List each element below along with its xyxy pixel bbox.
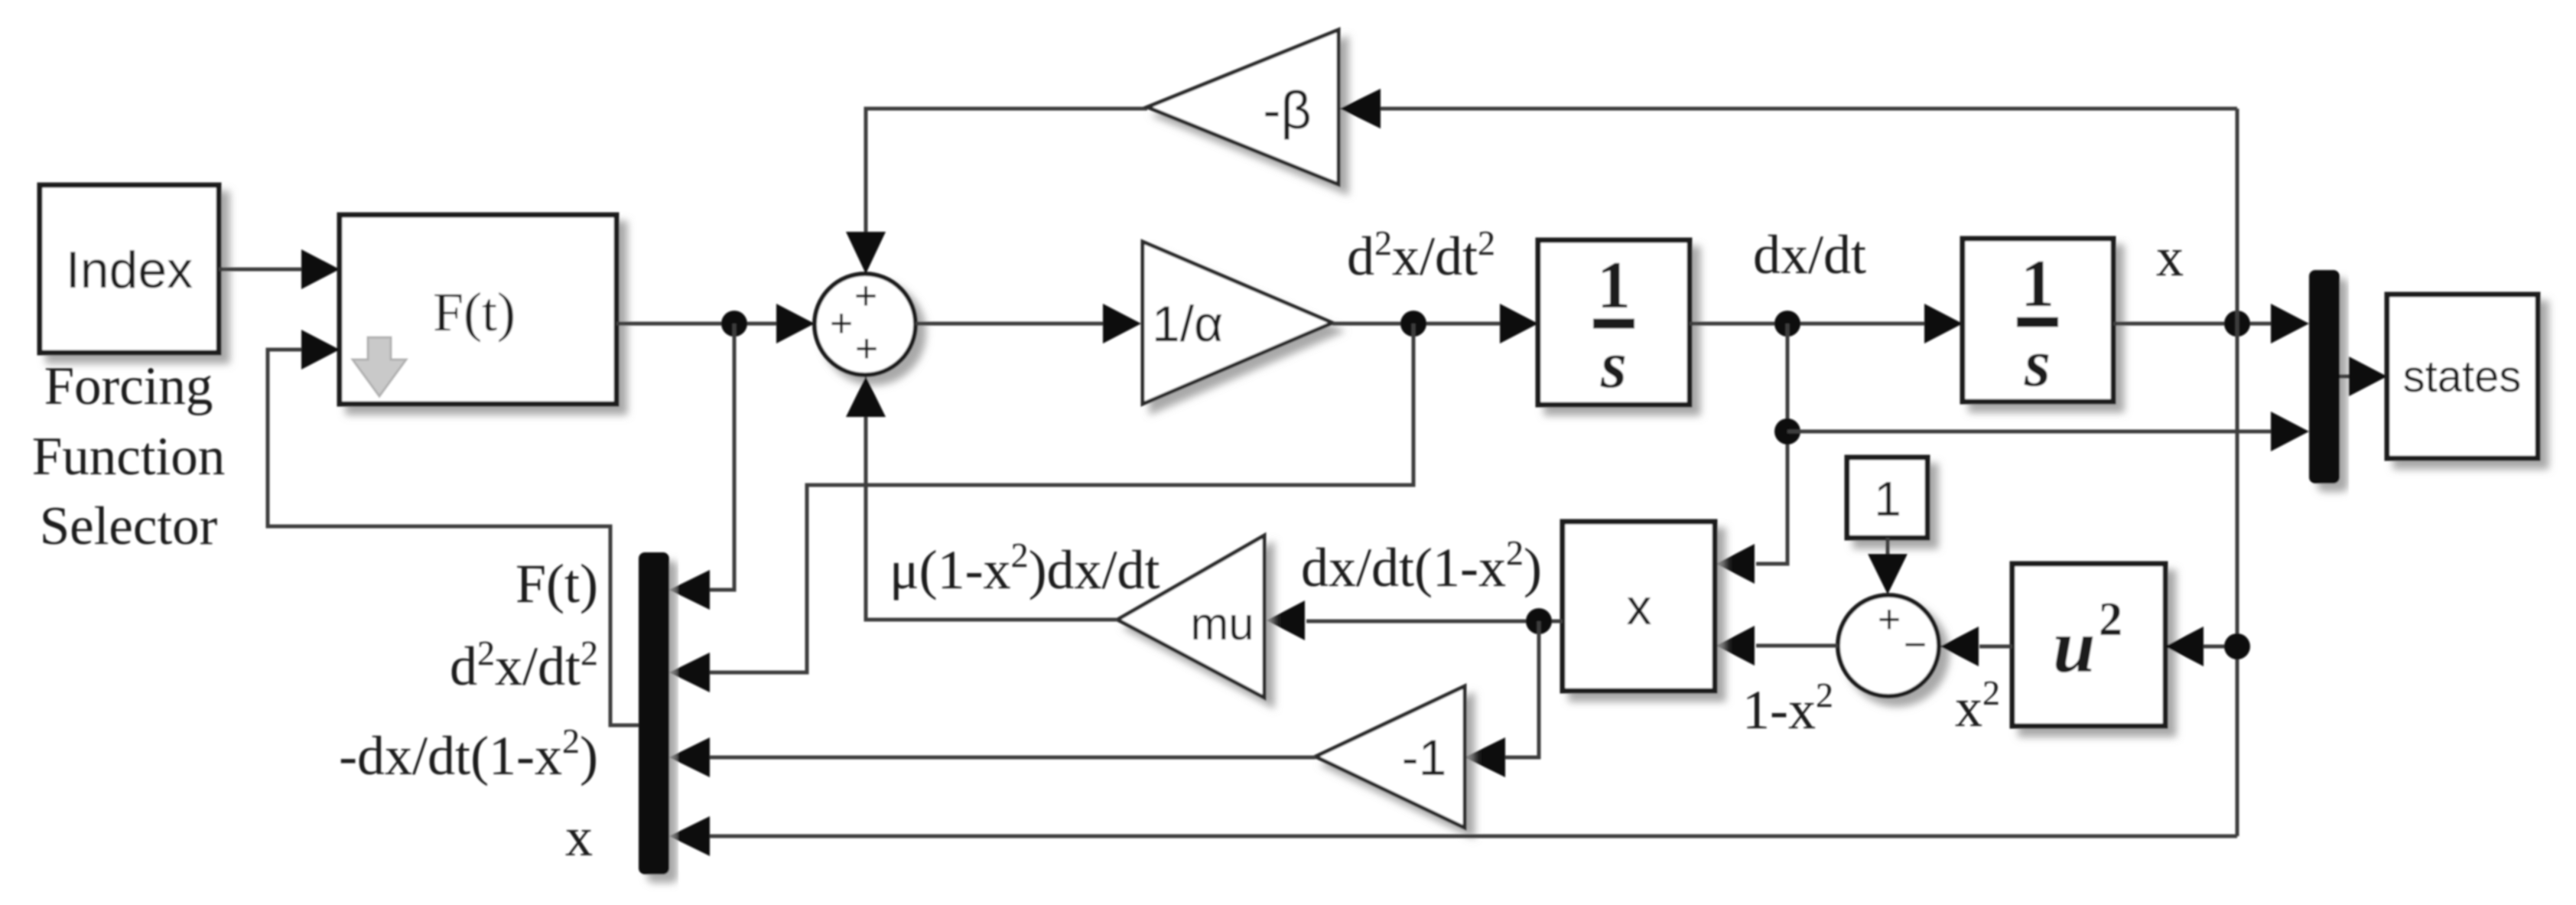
wire integrator 2 output to right mux input 1 [2113,304,2309,343]
svg-text:x: x [565,806,593,868]
wire arrow into product input 1 [1716,544,1755,584]
wire product output to gain mu [1267,601,1563,640]
block constant 1 [1847,457,1927,538]
svg-text:1: 1 [1874,471,1901,526]
wire integrator 1 to integrator 2 [1690,304,1963,343]
sum S2 [1838,595,1939,696]
node F(t) output junction [721,311,747,337]
wire sum S1 to gain 1/alpha [916,304,1141,343]
svg-text:+: + [855,327,878,371]
svg-text:s: s [2024,327,2051,401]
svg-text:u: u [2053,604,2096,689]
wire F(t) junction down to left mux input 1 [669,324,734,610]
node x output junction [2224,311,2250,337]
wire x feedback vertical [2236,109,2239,836]
svg-text:Forcing: Forcing [44,356,213,416]
svg-text:+: + [830,301,853,346]
svg-text:Function: Function [32,427,225,487]
wire right mux output to states [2340,356,2387,396]
wire product branch down to gain -1 [1465,621,1539,777]
block states [2387,295,2538,458]
subsystem F(t) [340,215,616,404]
gain 1/alpha [1143,242,1332,404]
mux right [2309,270,2340,483]
wire dx/dt branch down [1756,324,1787,564]
svg-text:1/α: 1/α [1152,295,1223,352]
svg-text:Selector: Selector [40,496,218,556]
wire u2 output to sum S2 [1940,627,2012,666]
svg-text:−: − [1904,623,1927,667]
node product output junction [1526,608,1552,634]
wire constant 1 down to sum S2 [1868,538,1908,594]
wire x feedback into -beta input [1340,89,2237,129]
wire F(t) output to sum S1 [616,304,815,343]
node dx/dt lower junction [1774,418,1800,444]
block Index [40,185,219,353]
mux left [639,552,669,874]
svg-text:+: + [1878,597,1901,642]
svg-text:F(t): F(t) [433,282,516,343]
svg-text:2: 2 [2099,594,2122,646]
integrator 1 [1538,240,1690,405]
svg-text:+: + [854,274,877,318]
svg-text:d2x/dt2: d2x/dt2 [450,633,598,697]
svg-text:Index: Index [66,241,193,299]
node d2x/dt2 junction [1400,311,1426,337]
node dx/dt junction [1774,311,1800,337]
svg-text:1: 1 [1597,249,1631,323]
svg-text:x: x [2156,226,2184,288]
block product x [1563,522,1715,691]
svg-text:1: 1 [2021,247,2054,321]
gain -beta [1147,30,1338,184]
sum S1 [815,274,916,375]
wire x bottom line to left mux input 4 [669,816,2237,856]
wire 1/alpha output to integrator 1 [1332,304,1538,343]
label Forcing Function Selector [32,356,225,556]
icon gray down-arrow in F(t) [353,337,406,396]
svg-text:-dx/dt(1-x2): -dx/dt(1-x2) [339,721,598,786]
wire left mux output to F(t) input 2 [268,330,639,725]
svg-text:F(t): F(t) [516,553,598,614]
svg-text:mu: mu [1190,598,1254,649]
gain -1 [1316,686,1465,828]
svg-text:-1: -1 [1402,729,1447,786]
svg-text:s: s [1600,328,1627,402]
wire Index to F(t) input 1 [219,249,340,289]
integrator 2 [1963,239,2113,402]
wire -1 output to left mux input 3 [669,737,1316,777]
svg-text:d2x/dt2: d2x/dt2 [1347,223,1495,287]
wire x feedback into u2 input [2165,627,2237,666]
svg-text:dx/dt: dx/dt [1753,224,1866,285]
svg-text:x: x [1627,578,1652,635]
wire d2x/dt2 branch to left mux input 2 [669,324,1413,692]
wire dx/dt to right mux input 2 [1787,412,2309,451]
svg-text:dx/dt(1-x2): dx/dt(1-x2) [1301,533,1542,598]
svg-text:-β: -β [1263,80,1312,140]
wire -beta output down into sum S1 top [846,109,1147,274]
wire mu output up into sum S1 bottom [846,376,1117,620]
node u2 input junction [2224,633,2250,659]
gain mu [1117,536,1264,698]
svg-text:states: states [2403,352,2522,402]
wire sum S2 output to product input 2 [1716,626,1838,666]
block u^2 [2012,564,2165,726]
